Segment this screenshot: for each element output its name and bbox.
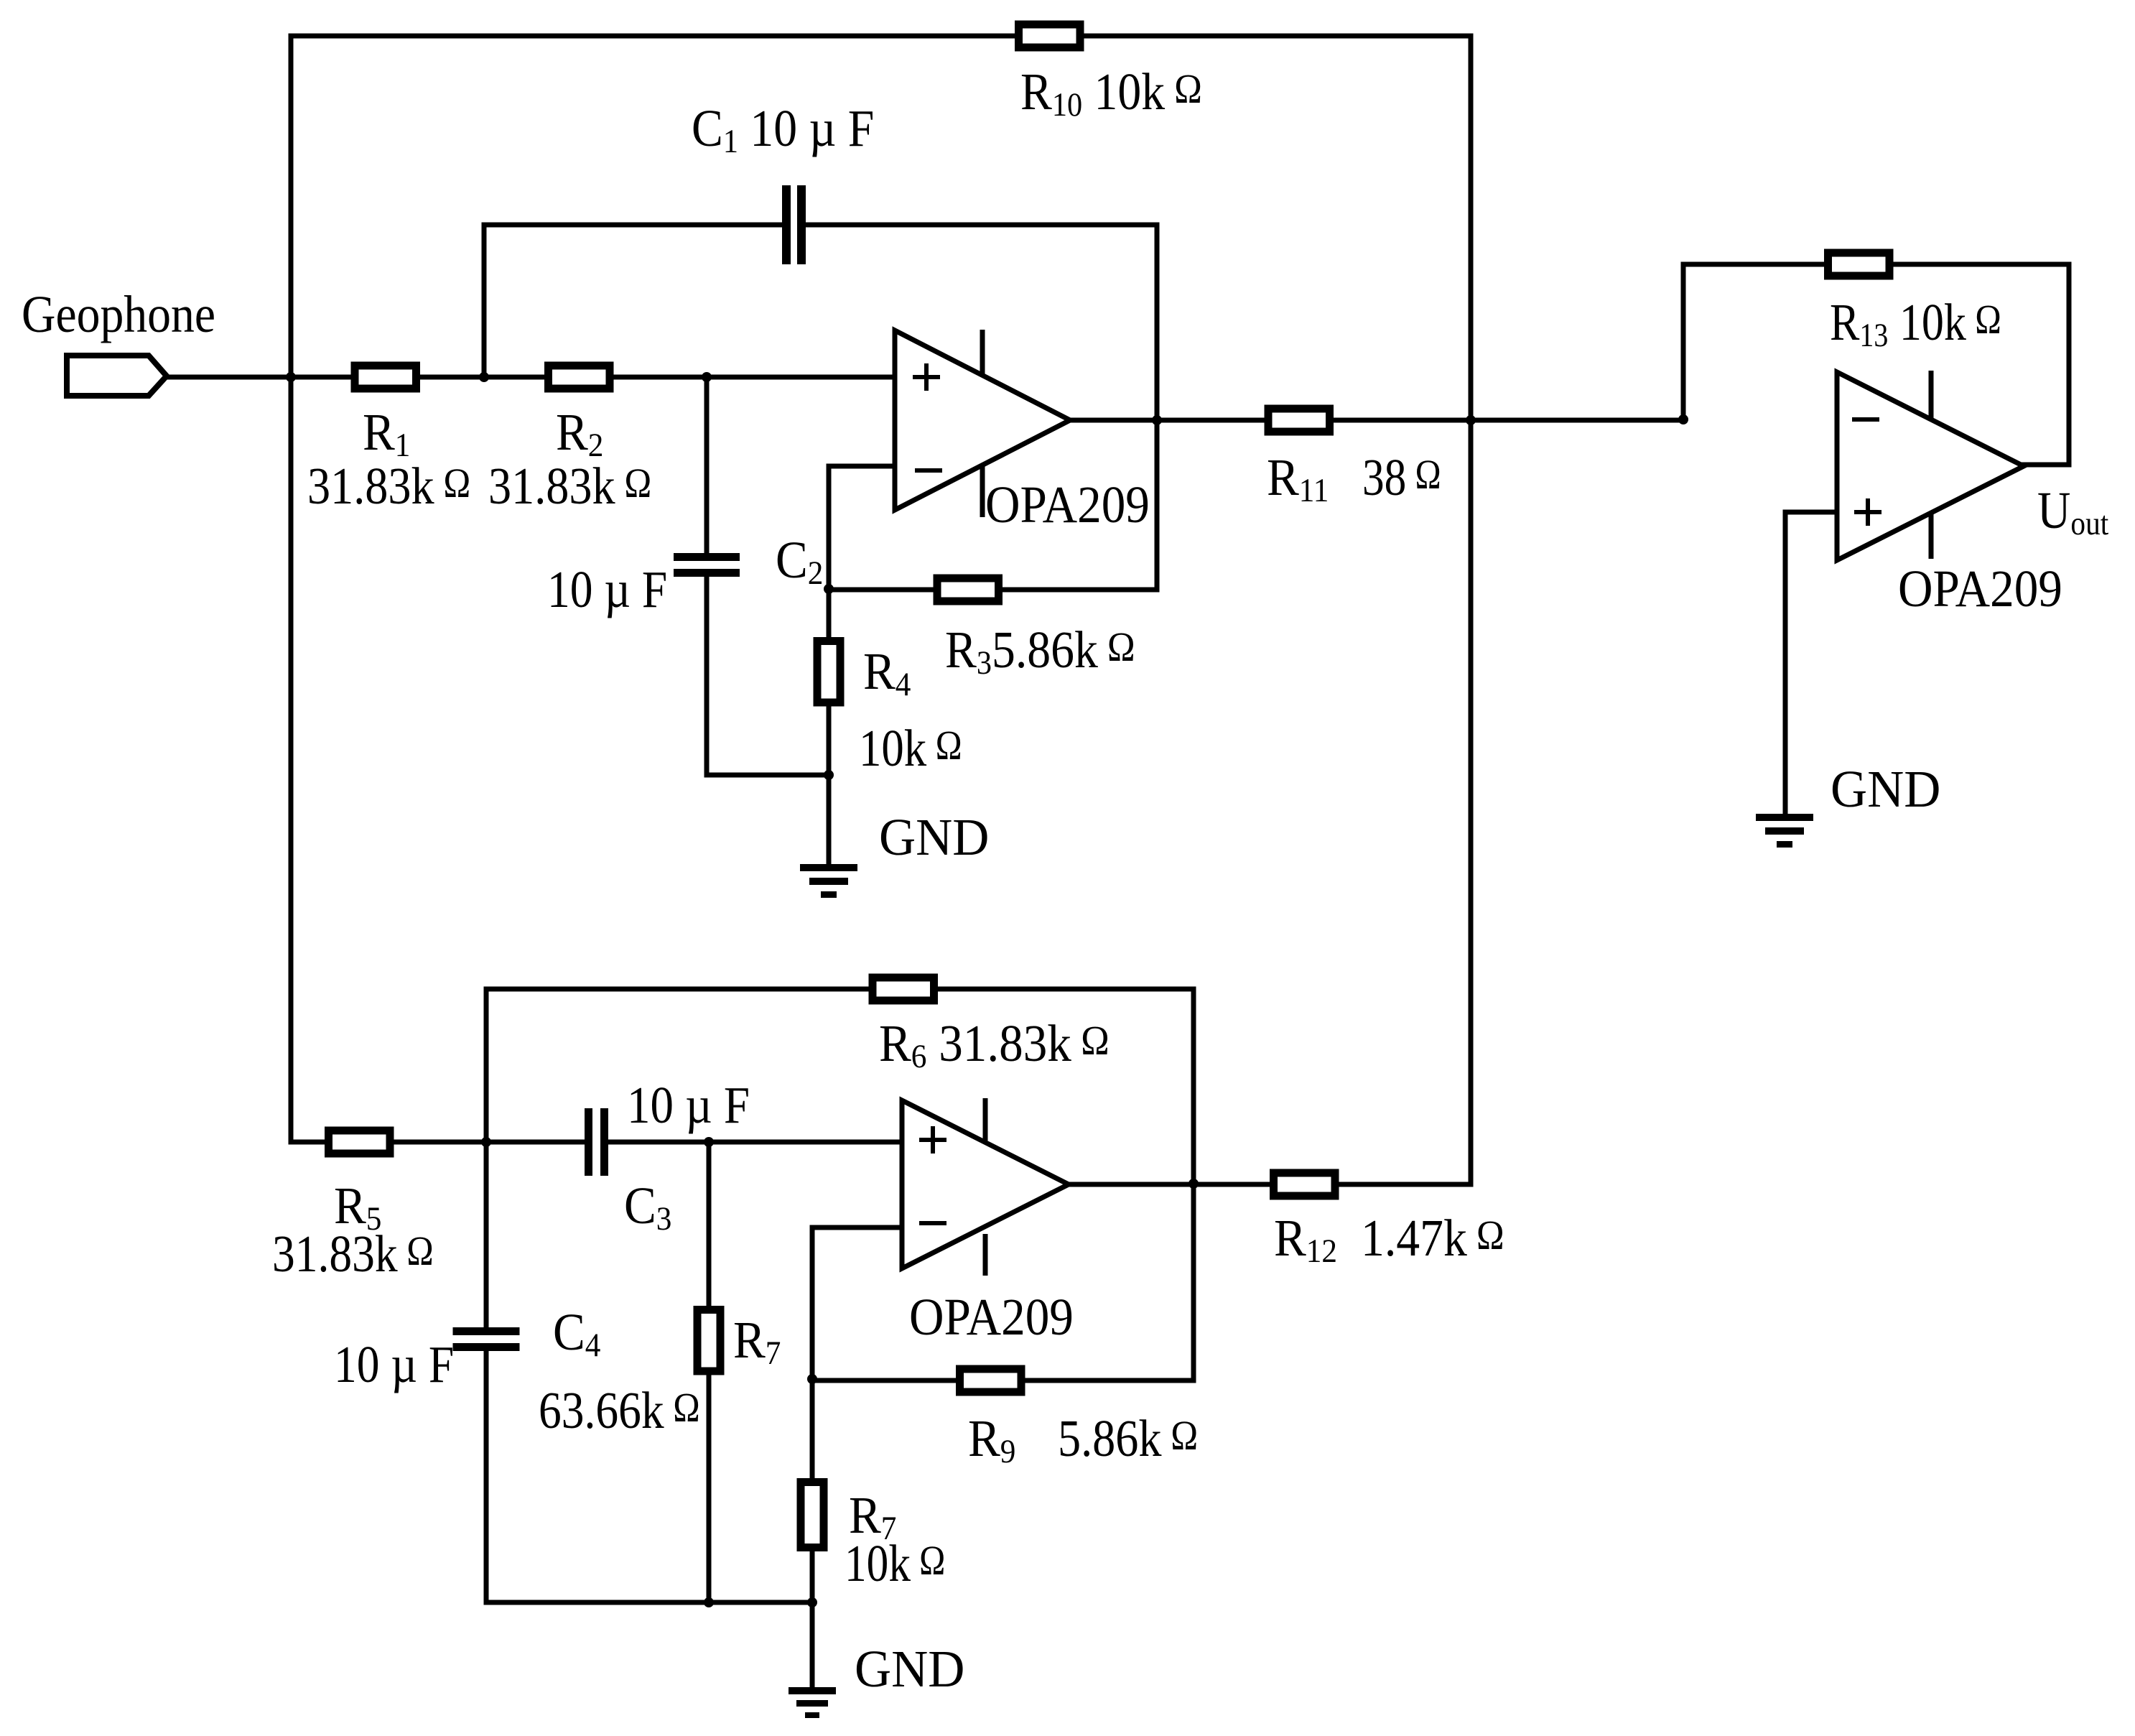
resistor R5 31.83k bbox=[329, 1131, 391, 1154]
resistor R6 31.83k bbox=[873, 978, 934, 1001]
wire U3 inverting input horizontal bbox=[812, 1225, 902, 1230]
op-amp U1 OPA209 bbox=[895, 330, 1070, 510]
op-amp U1 power pins bbox=[980, 330, 985, 517]
svg-text:OPA209: OPA209 bbox=[1898, 560, 2062, 618]
wire C2 vertical above plates bbox=[704, 377, 710, 553]
resistor R8 10k vertical (labelled R7) bbox=[801, 1482, 824, 1548]
junction R11 output / long vertical node bbox=[1466, 415, 1476, 425]
wire bottom branch after C3 bbox=[608, 1140, 902, 1145]
junction R2 output / C2 / U1 noninverting node bbox=[702, 372, 712, 382]
svg-text:OPA209: OPA209 bbox=[985, 475, 1150, 534]
wire U2 ground vertical bbox=[1783, 512, 1788, 814]
op-amp U2 power pins bbox=[1929, 371, 1934, 559]
resistor R7 63.66k vertical bbox=[697, 1310, 720, 1372]
wire R13 top horizontal bbox=[1683, 262, 2069, 267]
resistor R3 5.86k bbox=[937, 578, 999, 601]
svg-text:10 µ F: 10 µ F bbox=[334, 1335, 454, 1393]
junction U3 inverting / R9 / R8 node bbox=[807, 1374, 817, 1384]
svg-text:10 µ F: 10 µ F bbox=[627, 1076, 750, 1134]
wire R7 vertical from C3 node bbox=[707, 1142, 712, 1602]
wire R13 vertical left bbox=[1681, 264, 1686, 420]
resistor R9 5.86k bbox=[960, 1369, 1022, 1392]
junction R4 bottom / C2 branch / GND1 node bbox=[824, 770, 834, 780]
resistor R2 31.83k bbox=[549, 366, 610, 389]
junction U1 output / C1 leg node bbox=[1152, 415, 1162, 425]
wire C1 horizontal right of plates bbox=[806, 223, 1157, 228]
wire C1 stub up from R1-R2 node bbox=[482, 225, 487, 377]
junction U3 output / R6 leg / R12 node bbox=[1189, 1179, 1199, 1189]
op-amp U2 input polarity marks bbox=[1852, 419, 1882, 526]
svg-text:10k Ω: 10k Ω bbox=[859, 719, 962, 777]
wire R9 feedback bottom horizontal bbox=[812, 1378, 1194, 1383]
svg-text:GND: GND bbox=[1831, 760, 1940, 818]
wire bottom ground horizontal bbox=[486, 1600, 812, 1605]
wire C2 bottom horizontal to R4 node bbox=[707, 773, 829, 778]
ground symbol GND1 bbox=[800, 864, 857, 898]
op-amp U1 input polarity marks bbox=[913, 363, 942, 470]
op-amp U3 power pins bbox=[983, 1098, 988, 1276]
wire main input horizontal bbox=[165, 375, 895, 380]
junction R5 output / C4 / R6 node bbox=[481, 1137, 491, 1147]
wire long right vertical R10 to R12 bbox=[1469, 36, 1474, 1184]
junction C3 output / R7 / U3 noninverting node bbox=[704, 1137, 714, 1147]
wire bottom branch main horizontal bbox=[291, 1140, 585, 1145]
resistor R10 10k bbox=[1019, 24, 1081, 47]
svg-text:OPA209: OPA209 bbox=[909, 1288, 1074, 1346]
junction C2 / R3 / R4 / U1 inverting node bbox=[824, 584, 834, 594]
resistor R4 10k vertical bbox=[817, 641, 840, 703]
svg-text:C1 10 µ F: C1 10 µ F bbox=[692, 100, 874, 160]
wire R6 feedback top horizontal bbox=[486, 987, 1194, 992]
wire U1 inverting input horizontal bbox=[829, 464, 895, 469]
capacitor C1 plates bbox=[782, 185, 791, 264]
wire U2 non-inverting input horizontal bbox=[1785, 510, 1837, 515]
svg-text:GND: GND bbox=[879, 808, 989, 866]
wire U1 feedback right vertical bbox=[1155, 225, 1160, 590]
wire U3 output horizontal bbox=[1069, 1182, 1471, 1187]
wire R6 vertical left bbox=[484, 989, 489, 1142]
wire C2 vertical below plates bbox=[704, 577, 710, 775]
resistor R13 10k bbox=[1828, 253, 1890, 276]
wire C4 vertical below plates bbox=[484, 1351, 489, 1602]
wire U1 output horizontal bbox=[1070, 418, 1683, 423]
geophone input connector bbox=[67, 356, 167, 396]
wire C1 horizontal left of plates bbox=[484, 223, 782, 228]
junction input node at left vertical bbox=[286, 372, 296, 382]
svg-text:10 µ F: 10 µ F bbox=[547, 560, 667, 618]
junction R8 bottom / GND3 node bbox=[807, 1597, 817, 1607]
junction R1-R2 node with C1 stub bbox=[479, 372, 489, 382]
op-amp U2 OPA209 bbox=[1837, 372, 2024, 560]
capacitor C4 plates bbox=[453, 1327, 520, 1335]
wire U1 inverting vertical through R4 to GND bbox=[827, 466, 832, 864]
wire U3 feedback right vertical bbox=[1191, 989, 1196, 1380]
wire R3 feedback bottom horizontal bbox=[829, 588, 1157, 593]
wire C4 vertical above plates bbox=[484, 1142, 489, 1327]
junction R7 bottom on ground wire bbox=[704, 1597, 714, 1607]
resistor R12 1.47k bbox=[1274, 1173, 1336, 1196]
wire GND3 stem bbox=[810, 1602, 815, 1687]
capacitor C3 plates bbox=[585, 1108, 592, 1176]
wire top R10 feedback horizontal bbox=[291, 34, 1471, 39]
svg-text:Geophone: Geophone bbox=[22, 286, 215, 344]
op-amp U3 input polarity marks bbox=[919, 1126, 946, 1223]
svg-text:GND: GND bbox=[855, 1640, 964, 1698]
wire R13 vertical right bbox=[2067, 264, 2072, 465]
resistor R1 31.83k bbox=[355, 366, 417, 389]
wire U2 output horizontal bbox=[2024, 463, 2069, 468]
op-amp U3 OPA209 bbox=[902, 1100, 1069, 1268]
junction U2 inverting / R13 feedback node bbox=[1678, 414, 1688, 424]
resistor R11 38 ohm bbox=[1268, 409, 1330, 432]
capacitor C2 plates bbox=[674, 553, 740, 561]
ground symbol GND3 bbox=[789, 1687, 836, 1718]
wire U3 inverting vertical through R8 bbox=[810, 1227, 815, 1602]
wire left long vertical bbox=[289, 36, 294, 1142]
ground symbol GND2 bbox=[1756, 814, 1813, 848]
